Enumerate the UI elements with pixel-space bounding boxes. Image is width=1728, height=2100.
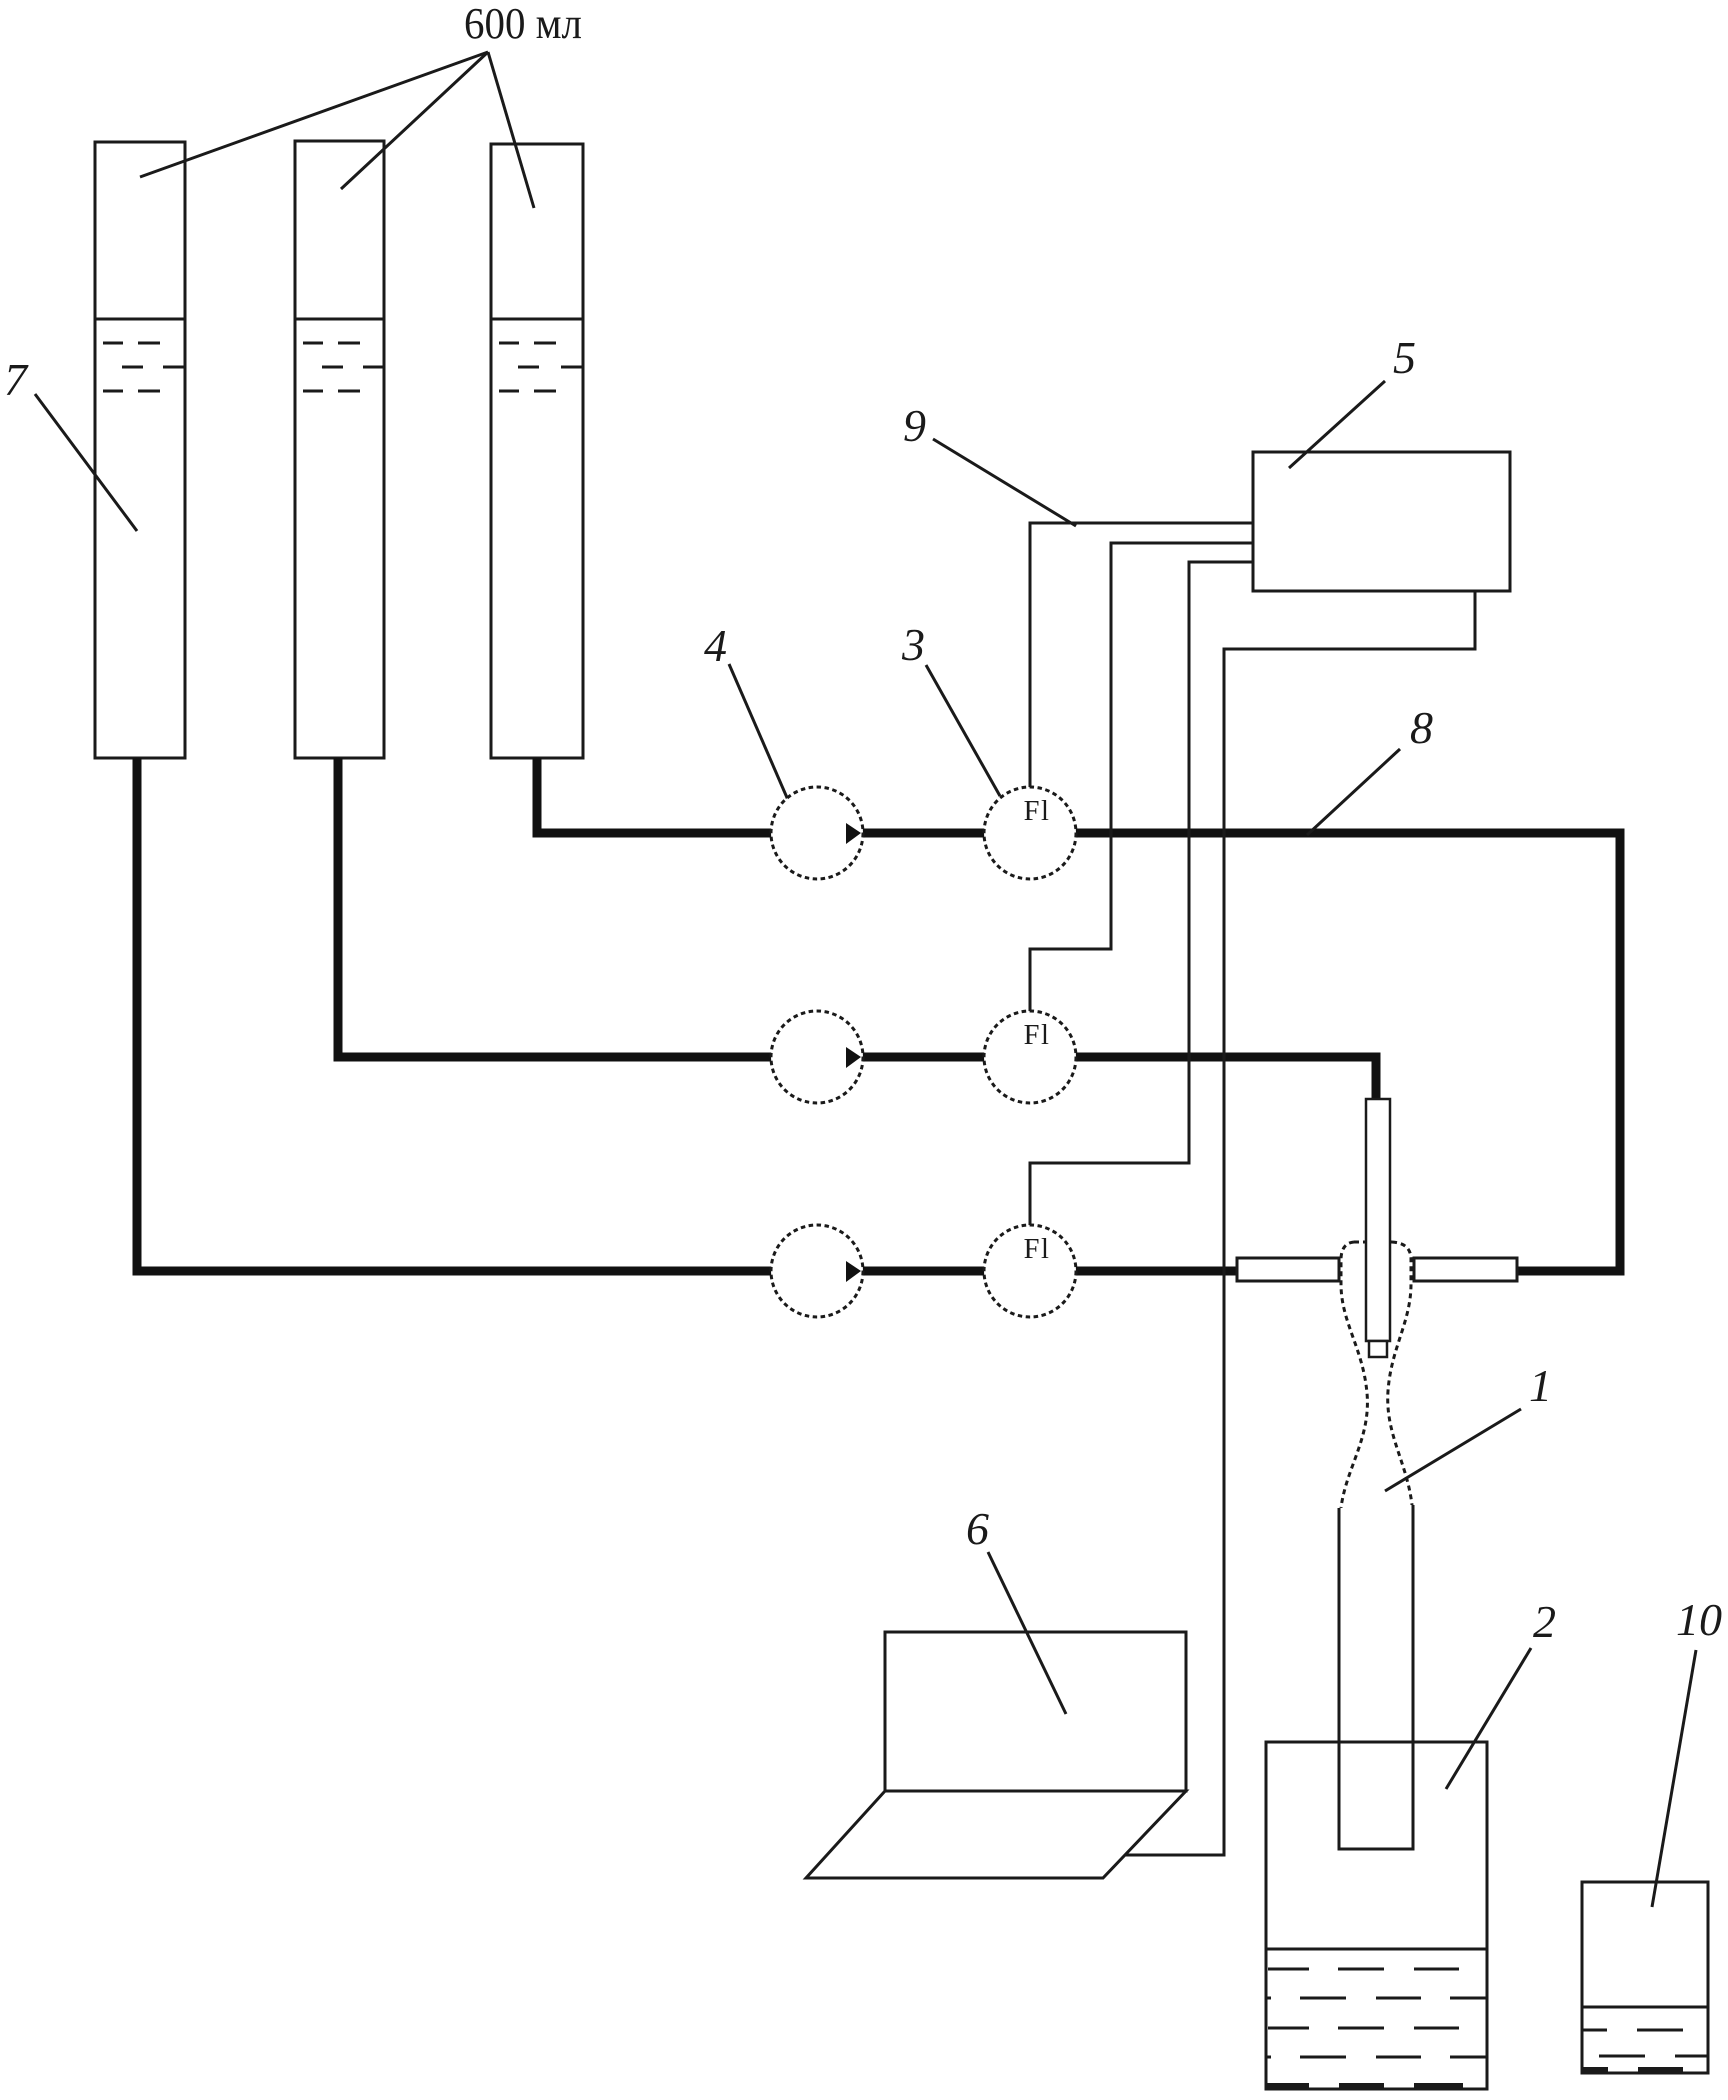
svg-text:8: 8 [1410, 702, 1433, 753]
svg-text:5: 5 [1393, 332, 1416, 383]
leader 600мл to vessel 1 [140, 52, 488, 177]
svg-text:4: 4 [704, 620, 727, 671]
cylinder 7b (vessel 2, 600 ml) [295, 141, 384, 758]
pump 4a (row 1) [771, 787, 863, 879]
leader 8 [1307, 749, 1400, 835]
leader 2 [1446, 1648, 1531, 1789]
controller box 5 [1253, 452, 1510, 591]
pump 4a body circle [771, 787, 863, 879]
svg-text:10: 10 [1676, 1594, 1722, 1645]
svg-text:Fl: Fl [1024, 1234, 1051, 1265]
pump 4c flow arrow [846, 1261, 861, 1282]
flowmeter 3b (row 2) [984, 1011, 1076, 1103]
flowmeter 3c body circle [984, 1225, 1076, 1317]
flowmeter 3a (row 1) [984, 787, 1076, 879]
svg-text:Fl: Fl [1024, 1020, 1051, 1051]
flowmeter 3b body circle [984, 1011, 1076, 1103]
svg-text:7: 7 [4, 354, 29, 405]
wire D: box 5 to laptop [1125, 591, 1475, 1855]
pump 4b body circle [771, 1011, 863, 1103]
atomizer funnel (dashed bulb and taper) [1341, 1242, 1412, 1508]
inner nozzle tube tip [1369, 1341, 1387, 1357]
pump 4b (row 2) [771, 1011, 863, 1103]
svg-text:6: 6 [966, 1503, 989, 1554]
pipe from vessel 3 to row 1 and down right side [537, 758, 1620, 1271]
leader 600мл to vessel 3 [488, 52, 534, 208]
svg-text:600 мл: 600 мл [464, 0, 582, 48]
leader 4 [729, 664, 788, 800]
svg-text:Fl: Fl [1024, 796, 1051, 827]
laptop 6 base [806, 1791, 1186, 1878]
laptop 6 screen [885, 1632, 1186, 1791]
wire C: box 5 to flowmeter 3 [1030, 562, 1253, 1227]
leader 3 [926, 665, 1000, 796]
leader 600мл to vessel 2 [341, 52, 488, 189]
leader 10 [1652, 1650, 1696, 1907]
svg-text:1: 1 [1529, 1360, 1552, 1411]
wire A: box 5 to flowmeter 1 [1030, 523, 1253, 789]
pipe from vessel 2 to row 2 [338, 758, 1376, 1099]
svg-text:9: 9 [903, 400, 926, 451]
flowmeter 3a body circle [984, 787, 1076, 879]
pump 4b flow arrow [846, 1047, 861, 1068]
leader 1 [1385, 1409, 1521, 1491]
spray bottle below funnel (solid) [1339, 1505, 1413, 1849]
wire B: box 5 to flowmeter 2 [1030, 543, 1253, 1013]
pump 4c (row 3) [771, 1225, 863, 1317]
cylinder 7c (vessel 3, 600 ml) [491, 144, 583, 758]
flowmeter 3c (row 3) [984, 1225, 1076, 1317]
leader 6 [988, 1552, 1066, 1714]
leader 5 [1289, 381, 1385, 468]
horizontal tube left segment [1237, 1258, 1339, 1281]
reference vessel 10 [1582, 1882, 1708, 2073]
collection vessel 2 [1266, 1742, 1487, 2089]
pump 4a flow arrow [846, 823, 861, 844]
cylinder 7a (vessel 1, 600 ml) [95, 142, 185, 758]
leader 9 [933, 439, 1076, 526]
pump 4c body circle [771, 1225, 863, 1317]
svg-text:3: 3 [901, 619, 925, 670]
horizontal tube right segment [1414, 1258, 1517, 1281]
leader 7 [35, 394, 137, 531]
pipe from vessel 1 to row 3 [137, 758, 1237, 1271]
inner nozzle tube [1366, 1099, 1390, 1341]
svg-text:2: 2 [1533, 1596, 1556, 1647]
